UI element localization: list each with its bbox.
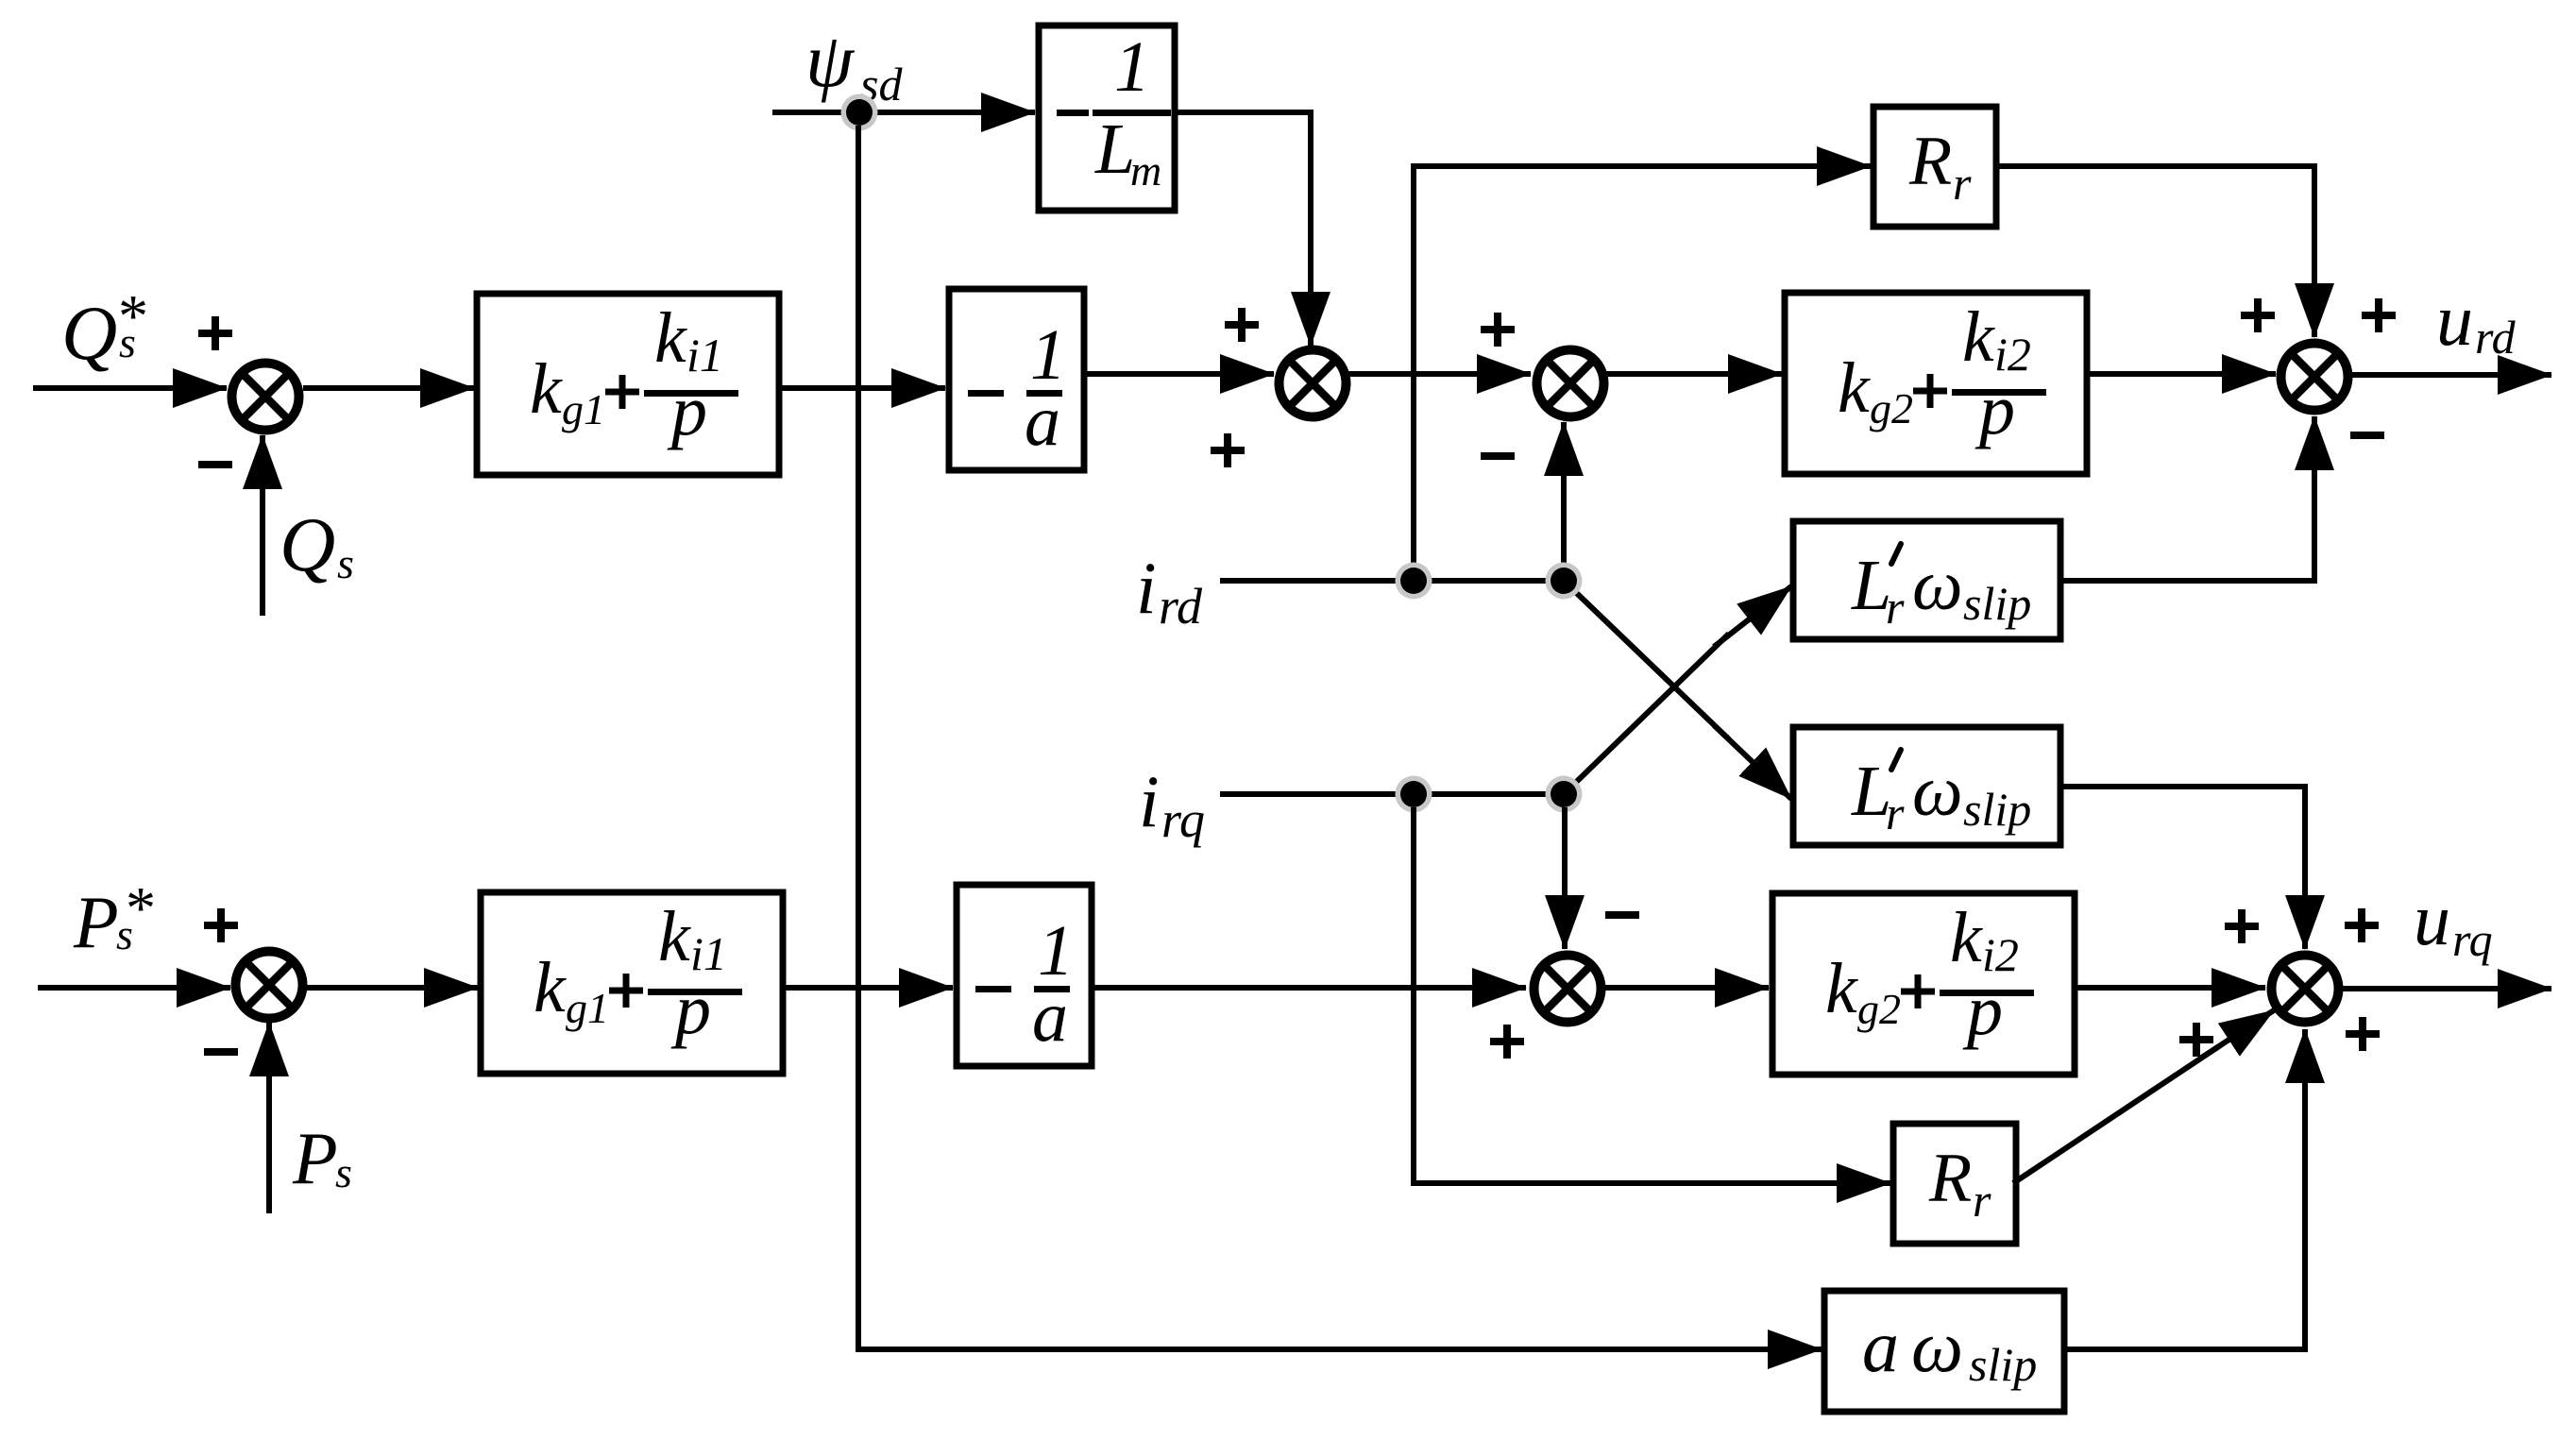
wire lower L'w output down into S6 top [2060,787,2305,949]
wire irq down arrow into S5 [1562,807,1568,949]
wire ird up into S3 [1561,422,1567,567]
wire ird tap up to Rr (top) [1414,166,1871,578]
wire Qs feedback up arrow [260,435,265,616]
plus sign at S6 bottom right [2346,1017,2380,1051]
svg-text:P: P [292,1117,338,1199]
minus sign at SP bottom [204,1048,238,1056]
node psi_sd label [805,17,903,110]
svg-text:ψ: ψ [805,17,856,103]
block PI controller kg2+ki2/p (q-axis) [1772,893,2075,1075]
svg-text:s: s [337,539,354,587]
block L'r w_slip (lower) [1793,727,2060,845]
node u_rd label [2436,279,2517,364]
plus sign at S4 top right [2362,298,2396,332]
svg-text:s: s [335,1148,352,1196]
svg-text:a: a [1862,1305,1899,1387]
svg-text:P: P [73,881,119,963]
svg-text:u: u [2436,279,2473,361]
plus sign at S5 bottom left [1490,1025,1524,1059]
block Rr (bottom) [1893,1124,2016,1244]
svg-text:L: L [1094,110,1135,189]
svg-text:i: i [1136,547,1157,629]
wire -1/a to S2 [1084,371,1274,377]
wire PI to -1/a block (d-axis) [779,385,945,391]
svg-text:Q: Q [280,501,335,587]
block a w_slip [1824,1291,2064,1412]
junction node ird A [1396,563,1432,600]
svg-text:*: * [123,874,153,941]
block PI controller kg1+ki1/p (q-axis) [481,892,783,1074]
wire PI to -1/a block (q-axis) [783,985,953,991]
wire irq tap down to Rr (bottom) [1414,807,1890,1183]
wire Ps feedback up arrow [266,1023,272,1213]
svg-text:i: i [1139,760,1160,842]
plus sign at S2 bottom left [1211,433,1245,467]
svg-text:ω: ω [1911,1305,1963,1387]
node Ps* label [73,874,153,963]
wire u_rq output [2339,986,2551,991]
wire diagonal ird to lower L'w slip block [1564,581,1791,799]
wire PI2 to S4 [2087,371,2276,377]
node Ps label [292,1117,352,1199]
node Qs label [280,501,354,587]
node u_rq label [2414,878,2493,966]
block PI controller kg2+ki2/p (d-axis) [1785,293,2087,474]
wire PI2 to S6 (q-axis) [2075,985,2265,991]
wire S1 to PI block [303,385,474,391]
plus sign at S6 top left [2225,909,2259,943]
wire psi_sd vertical trunk down to a w_slip row [858,126,1822,1349]
svg-text:rq: rq [1161,791,1205,848]
svg-text:Q: Q [61,290,117,376]
wire -1/a to S5 (q-axis) [1092,985,1526,991]
minus sign at summing junction S1 [198,461,232,468]
minus sign at S5 top right [1605,911,1639,919]
wire S3 to PI2 block [1605,371,1782,377]
block PI controller kg1+ki1/p (d-axis) [477,294,779,475]
wire Rr output down into S4 top [1996,166,2314,337]
block Rr (top) [1873,107,1996,227]
svg-text:m: m [1130,146,1161,195]
wire a w_slip output up into S6 bottom [2064,1029,2305,1349]
plus sign at S4 top left [2241,298,2275,332]
wire Qs* input [33,385,227,391]
plus sign at summing junction S1 [198,316,232,350]
plus sign at S6 bottom left [2179,1023,2213,1057]
wire irq horizontal [1220,791,1564,797]
summing junction SP [236,952,303,1019]
summing junction S3 [1537,350,1604,417]
summing junction S2 [1280,350,1347,417]
svg-text:rq: rq [2452,913,2493,966]
svg-text:slip: slip [1969,1338,2037,1391]
plus sign at S2 top left [1225,308,1259,342]
wire u_rd output [2348,372,2551,378]
block -1/Lm [1039,25,1175,211]
svg-text:rd: rd [2475,311,2517,364]
wire S2 to S3 [1347,371,1531,377]
plus sign at SP top [204,908,238,942]
junction node irq B [1546,776,1583,813]
summing junction S5 [1534,956,1602,1023]
node Qs* label [61,282,145,376]
wire psi_sd into -1/Lm [772,110,1035,115]
wire -1/Lm output to S2 top [1175,112,1311,346]
wire S5 to PI2 (q-axis) [1602,985,1769,991]
wire Rr bottom diagonal into S6 [2013,1010,2274,1183]
junction node ird B [1546,563,1583,600]
svg-text:rd: rd [1159,578,1203,635]
plus sign at S6 top right [2345,908,2379,942]
wire upper L'w output up into S4 bottom [2060,416,2314,581]
block -1/a (d-axis) [949,289,1084,470]
svg-text:u: u [2414,878,2450,960]
node ird label [1136,547,1203,635]
block -1/a (q-axis) [957,885,1092,1066]
summing junction S6 (u_rq output) [2272,956,2339,1023]
summing junction S4 (u_rd output) [2281,344,2348,411]
summing junction S1 [232,364,299,431]
wire SP to PI block (q-axis) [307,985,478,991]
junction node psi_sd [841,94,878,131]
minus sign at S4 bottom right [2350,432,2384,439]
junction node irq A [1396,776,1432,813]
svg-text:*: * [115,282,145,349]
plus sign at S3 top left [1481,313,1515,347]
wire ird horizontal [1220,578,1564,584]
minus sign at S3 bottom left [1481,452,1515,460]
wire diagonal irq to upper L'w slip block [1564,586,1791,794]
block L'r w_slip (upper) [1793,521,2060,639]
svg-text:1: 1 [1114,27,1150,107]
wire Ps* input [38,985,230,991]
node irq label [1139,760,1205,848]
